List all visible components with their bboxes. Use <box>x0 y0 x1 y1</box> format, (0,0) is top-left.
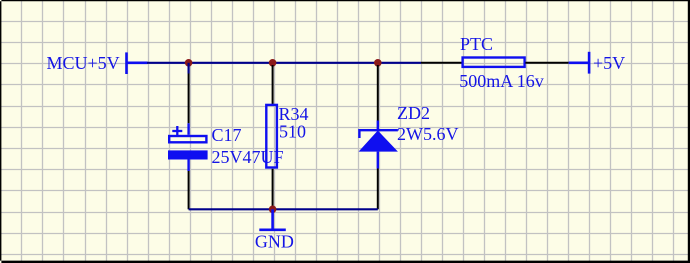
resistor R34 <box>266 105 277 168</box>
svg-text:MCU+5V: MCU+5V <box>47 53 120 73</box>
svg-text:500mA 16v: 500mA 16v <box>459 71 544 91</box>
wire +5V entry segment <box>569 62 589 65</box>
svg-text:C17: C17 <box>212 125 242 145</box>
pin PTC right <box>525 62 568 64</box>
resistor PTC (thermistor) <box>463 58 525 67</box>
pin PTC left <box>421 62 462 64</box>
svg-text:25V47UF: 25V47UF <box>212 147 284 167</box>
svg-text:2W5.6V: 2W5.6V <box>397 124 459 144</box>
pin ZD2 bottom <box>377 169 379 210</box>
pin R34 top <box>272 65 274 104</box>
wire MCU+5V entry segment <box>127 62 148 65</box>
junction J2 <box>269 59 277 67</box>
svg-text:GND: GND <box>255 232 294 252</box>
pin C17 bottom <box>188 171 190 209</box>
svg-text:ZD2: ZD2 <box>397 103 430 123</box>
wire stub below J1 <box>188 63 190 74</box>
port tick MCU+5V <box>125 52 128 74</box>
port tick +5V <box>588 52 591 74</box>
wire top rail <box>147 62 421 64</box>
wire bottom rail <box>189 208 378 210</box>
capacitor C17 <box>168 123 208 171</box>
pin C17 top <box>188 74 190 124</box>
ground symbol <box>259 209 286 230</box>
pin ZD2 top <box>377 65 379 121</box>
svg-text:PTC: PTC <box>460 34 493 54</box>
svg-text:510: 510 <box>279 121 306 141</box>
junction J1 <box>185 59 193 67</box>
pin R34 bottom <box>272 169 274 210</box>
junction J4 (GND node) <box>269 206 277 214</box>
zener diode ZD2 <box>359 121 398 169</box>
svg-text:+5V: +5V <box>593 53 625 73</box>
junction J3 <box>374 59 382 67</box>
